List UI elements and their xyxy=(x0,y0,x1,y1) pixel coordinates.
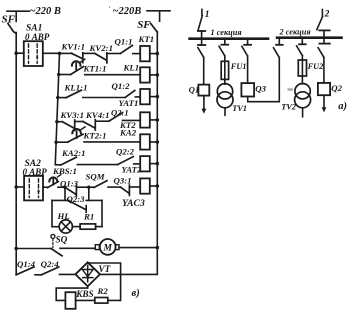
wire: left drop xyxy=(64,187,66,200)
junction dots on left rail xyxy=(14,51,18,55)
svg-text:Q2: Q2 xyxy=(331,83,342,93)
wire xyxy=(60,247,95,249)
svg-text:в): в) xyxy=(132,288,140,299)
contact KV4:1 (NC blade) xyxy=(83,122,95,129)
wire: branch line xyxy=(52,199,102,201)
contact Q2:3 (NC blade) xyxy=(69,201,86,210)
coil KT1 xyxy=(140,46,150,61)
wire row3 xyxy=(58,97,66,99)
wire xyxy=(52,226,59,228)
wire from left rail xyxy=(16,248,51,250)
coil KA2 xyxy=(140,134,150,149)
svg-text:~220В: ~220В xyxy=(113,6,142,17)
contact KT2:1 (time-delay NO) xyxy=(68,134,83,142)
contact Q3:1 (NC blade) xyxy=(120,187,129,193)
svg-text:KBS: KBS xyxy=(75,289,93,299)
relay coil KBS xyxy=(65,292,75,309)
wire xyxy=(203,57,205,84)
wire xyxy=(35,274,41,276)
svg-text:Q3: Q3 xyxy=(255,84,266,94)
wire xyxy=(95,120,109,122)
contact Q1:1 (NO blade) xyxy=(120,45,132,53)
svg-text:Q1:2: Q1:2 xyxy=(112,81,131,91)
arrow to load xyxy=(203,96,205,110)
resistor R1 xyxy=(80,224,96,229)
wire row5 xyxy=(56,141,68,143)
svg-text:KT1: KT1 xyxy=(138,34,155,44)
wire to right rail xyxy=(150,96,158,98)
wire xyxy=(133,53,140,55)
wire to right rail xyxy=(150,53,158,55)
svg-text:FU2: FU2 xyxy=(307,62,324,71)
voltage transformer TV2 xyxy=(295,84,310,99)
contact KBS:1 (latched, with release arc) xyxy=(48,182,59,188)
wire to right rail xyxy=(150,141,158,143)
wire xyxy=(75,121,83,123)
wire xyxy=(89,186,94,188)
wire to right rail xyxy=(150,185,158,187)
wire from VT bottom xyxy=(56,286,87,300)
svg-text:Q1:1: Q1:1 xyxy=(115,36,133,46)
svg-text:~220 В: ~220 В xyxy=(30,6,61,17)
svg-text:2 секция: 2 секция xyxy=(279,28,311,37)
svg-text:KL1:1: KL1:1 xyxy=(64,82,88,92)
breaker Q2 xyxy=(318,83,330,95)
wire xyxy=(83,52,95,54)
contact KV1:1 (NC blade) xyxy=(72,53,83,58)
feeder TV2: stub and disconnector xyxy=(301,39,303,44)
wire xyxy=(72,226,80,228)
sectionalizing breaker Q3 xyxy=(241,83,254,96)
junction dots on right rail xyxy=(156,52,160,56)
contact KT1:1 (time-delay NO) xyxy=(70,67,83,75)
svg-text:2: 2 xyxy=(324,10,330,20)
wire xyxy=(96,226,102,228)
svg-text:KT1:1: KT1:1 xyxy=(83,64,107,74)
svg-text:M: M xyxy=(102,244,112,254)
contact KL1:1 (NO blade) xyxy=(66,90,81,98)
svg-text:VT: VT xyxy=(99,264,111,274)
svg-text:R1: R1 xyxy=(83,212,94,222)
svg-text:SQ: SQ xyxy=(56,234,68,244)
contact Q2:1 (NO blade) xyxy=(109,113,122,121)
wire xyxy=(76,299,95,301)
junction node: SA1 output xyxy=(58,52,62,56)
svg-text:TV1: TV1 xyxy=(232,104,247,113)
svg-text:KBS:1: KBS:1 xyxy=(52,166,77,176)
svg-text:1 секция: 1 секция xyxy=(211,28,242,37)
svg-text:YAC3: YAC3 xyxy=(122,198,145,209)
wire: right rail down to rectifier xyxy=(100,32,157,274)
wire: loop verticals xyxy=(52,200,102,226)
svg-text:KL1: KL1 xyxy=(123,63,140,73)
wire to right rail xyxy=(119,247,157,249)
contact Q1:3 (NC blade) xyxy=(65,187,76,194)
svg-text:TV2: TV2 xyxy=(281,103,296,112)
wire xyxy=(83,97,125,99)
svg-text:SQM: SQM xyxy=(86,172,106,182)
contact SQ blade xyxy=(51,249,62,256)
contact KA2:1 (NO blade) xyxy=(61,157,76,165)
feeder Q1: disconnector blade xyxy=(198,48,204,58)
svg-text:YAT1: YAT1 xyxy=(119,98,139,108)
disconnector at bus 1 xyxy=(198,30,205,32)
svg-text:KV3:1: KV3:1 xyxy=(60,110,84,120)
wire: top-right supply line xyxy=(147,11,170,21)
svg-text:KV2:1: KV2:1 xyxy=(89,43,113,53)
wire xyxy=(77,164,118,166)
wire row1 xyxy=(60,52,72,54)
svg-text:1: 1 xyxy=(205,10,210,20)
svg-text:Q2:1: Q2:1 xyxy=(111,107,129,117)
coil YAC3 xyxy=(140,178,150,193)
svg-text:KV1:1: KV1:1 xyxy=(61,42,85,52)
wire xyxy=(76,186,88,188)
svg-text:KA2:1: KA2:1 xyxy=(61,148,85,158)
svg-text:Q3:1: Q3:1 xyxy=(114,176,132,186)
wire loop to VT top xyxy=(88,263,121,300)
svg-text:R2: R2 xyxy=(97,286,109,296)
svg-text:KV4:1: KV4:1 xyxy=(85,110,109,120)
wire xyxy=(123,119,141,121)
wire: left rail xyxy=(15,33,17,275)
wire: right drop xyxy=(88,187,90,200)
junction dots on second rail xyxy=(57,73,60,76)
wire: second rail (feeds rows 1-6) xyxy=(55,53,59,163)
lamp HL xyxy=(59,220,72,233)
feeder Q2: disconnector blade xyxy=(318,48,324,58)
feeder Q3: stub and disconnector xyxy=(247,40,249,45)
contact KV2:1 (NC blade) xyxy=(95,53,107,60)
disconnector at bus 2 xyxy=(319,29,329,31)
scan smudge xyxy=(288,88,294,90)
svg-text:': ' xyxy=(109,6,111,14)
coil YAT1 xyxy=(140,89,150,104)
contact SQM (NO blade) xyxy=(94,181,107,188)
wire to right rail xyxy=(150,119,158,121)
wire to right rail xyxy=(150,163,158,165)
wire xyxy=(108,186,120,188)
svg-text:Q2:3: Q2:3 xyxy=(67,194,86,204)
wire xyxy=(85,74,140,76)
coil KT2 xyxy=(140,112,150,127)
junction node (Q2:3 branch left) xyxy=(63,186,66,189)
tie feeder disconnector at bus 2 xyxy=(274,48,280,58)
voltage transformer TV1 xyxy=(217,84,232,99)
svg-text:Q2:2: Q2:2 xyxy=(116,147,135,157)
wire xyxy=(58,186,65,188)
svg-text:YAT2: YAT2 xyxy=(122,164,142,174)
contact Q1:4 (NO blade) xyxy=(16,267,34,275)
svg-text:KA2: KA2 xyxy=(119,128,137,138)
motor M xyxy=(95,245,99,250)
contact Q2:4 (NO blade) xyxy=(41,267,59,275)
wire: top-left supply line xyxy=(7,11,29,21)
wire row2 xyxy=(59,74,71,76)
svg-text:а): а) xyxy=(338,101,347,112)
wire row4 xyxy=(57,121,63,123)
coil KL1 xyxy=(140,67,150,82)
wire: tie link between sections xyxy=(248,58,280,102)
contact Q1:2 (NO blade) xyxy=(125,90,135,97)
coil YAT2 xyxy=(140,156,150,171)
wire xyxy=(135,96,140,98)
wire xyxy=(129,186,140,188)
svg-text:SF: SF xyxy=(137,19,151,31)
incoming line 1 xyxy=(201,9,203,15)
wire xyxy=(107,53,121,55)
svg-text:FU1: FU1 xyxy=(230,62,247,71)
wire row6 from rail corner xyxy=(55,163,61,164)
wire xyxy=(59,273,75,275)
junction node (Q2:3 branch right) xyxy=(87,186,90,189)
incoming line 2 xyxy=(321,10,323,17)
arrow to load xyxy=(323,95,325,108)
resistor R2 xyxy=(95,298,108,304)
wire to right rail xyxy=(150,74,158,76)
feeder TV1: stub and disconnector xyxy=(224,40,226,45)
svg-text:KT2:1: KT2:1 xyxy=(83,131,107,141)
wire xyxy=(84,141,140,143)
contact KV3:1 (NC blade) xyxy=(62,122,74,128)
wire xyxy=(134,163,141,165)
contact Q2:2 (NO blade) xyxy=(118,157,133,165)
